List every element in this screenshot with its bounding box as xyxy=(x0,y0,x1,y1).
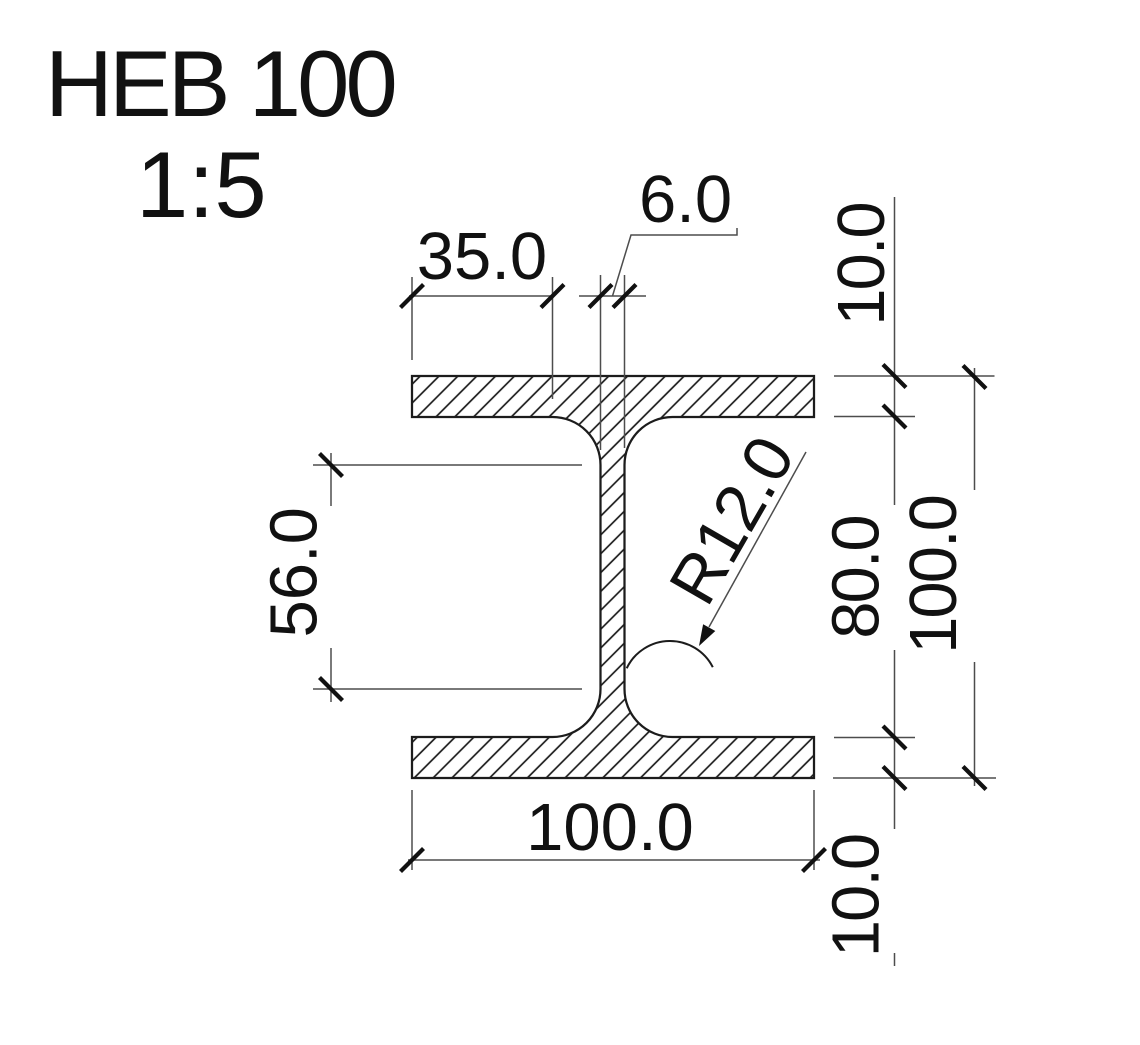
dim 10.0/80.0 dimension line upper run xyxy=(894,197,896,505)
dim R12.0 leader line xyxy=(709,452,806,627)
dim 6.0 left tick xyxy=(589,285,612,308)
extension line flange bottom right xyxy=(833,777,996,779)
dim 35.0 right tick xyxy=(541,285,564,308)
dim 10.0 bottom stub xyxy=(894,953,896,966)
dim R12.0 radius arc xyxy=(627,641,713,668)
extension line flange top inner right xyxy=(834,416,915,418)
dim 56.0 bottom extension line xyxy=(313,688,582,690)
svg-text:10.0: 10.0 xyxy=(824,203,899,325)
dim 100.0 bottom left extension line xyxy=(411,790,413,870)
tick 331/465 xyxy=(320,454,343,477)
dim 100.0 right dimension line upper run xyxy=(974,368,976,490)
svg-text:6.0: 6.0 xyxy=(639,162,732,237)
dim 35.0 left tick xyxy=(401,285,424,308)
svg-text:35.0: 35.0 xyxy=(417,219,547,294)
dim 100.0 bottom right extension line xyxy=(813,790,815,870)
dim 100.0 bottom line xyxy=(408,859,820,861)
dim 35.0 right extension line xyxy=(552,277,554,399)
dim 56.0 top extension line xyxy=(313,464,582,466)
svg-text:56.0: 56.0 xyxy=(257,507,332,637)
dim R12.0 arrowhead xyxy=(699,624,715,646)
tick 974/377 xyxy=(963,366,986,389)
tick 974/778 xyxy=(963,767,986,790)
tick 894/376 xyxy=(883,365,906,388)
beam cross-section hatch fill xyxy=(412,376,814,778)
dim 35.0 line xyxy=(409,295,553,297)
dim 6.0 left extension line xyxy=(600,275,602,450)
beam cross-section outline xyxy=(412,376,814,778)
dim 6.0 right tick xyxy=(613,285,636,308)
dim 80.0 dimension line lower run xyxy=(894,650,896,829)
dim 56.0 dimension line upper run xyxy=(330,453,332,506)
dim 6.0 leader shelf xyxy=(613,228,738,296)
tick 894/778 xyxy=(883,767,906,790)
tick 814/860 xyxy=(803,849,826,872)
dim 6.0 line xyxy=(579,295,646,297)
svg-text:100.0: 100.0 xyxy=(896,496,971,654)
extension line flange bottom inner right xyxy=(834,737,915,739)
tick 894/737 xyxy=(883,726,906,749)
svg-text:HEB 100: HEB 100 xyxy=(45,31,395,136)
dim 56.0 dimension line lower run xyxy=(330,648,332,702)
svg-text:1:5: 1:5 xyxy=(136,132,267,237)
extension line flange top right xyxy=(834,375,995,377)
dim 6.0 right extension line xyxy=(624,275,626,448)
tick 331/689 xyxy=(320,678,343,701)
dim 35.0 left extension line xyxy=(411,277,413,360)
svg-text:100.0: 100.0 xyxy=(526,790,694,865)
svg-text:80.0: 80.0 xyxy=(819,516,894,638)
dim 100.0 right dimension line lower run xyxy=(974,662,976,786)
svg-text:10.0: 10.0 xyxy=(819,835,894,957)
tick 894/416 xyxy=(883,405,906,428)
tick 412/860 xyxy=(401,849,424,872)
